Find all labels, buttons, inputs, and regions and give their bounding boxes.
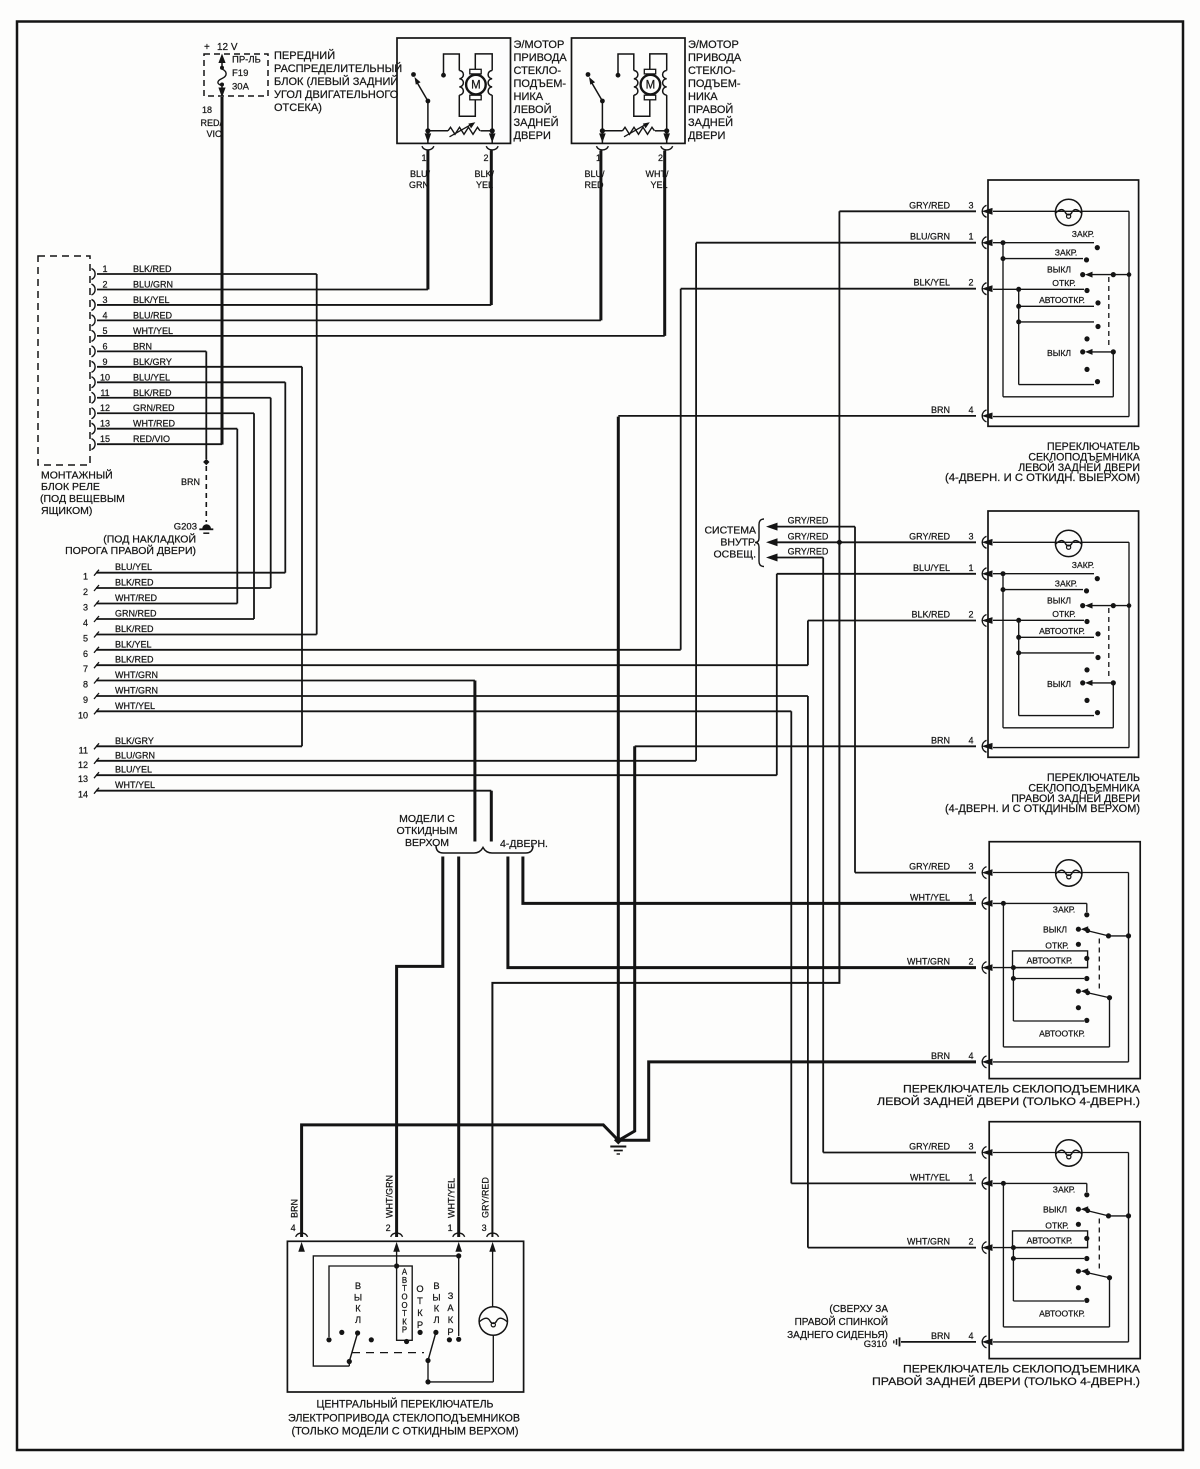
svg-text:ОТКР.: ОТКР. (1052, 609, 1075, 619)
connector pin 3 BLK/YEL (92, 299, 96, 310)
svg-text:МОНТАЖНЫЙ: МОНТАЖНЫЙ (41, 469, 113, 482)
svg-text:18: 18 (202, 105, 212, 115)
svg-text:Р: Р (447, 1327, 453, 1337)
svg-text:О: О (416, 1284, 423, 1294)
svg-text:WHT/RED: WHT/RED (133, 419, 175, 429)
wire switch1 pin1 BLU/GRN horizontal (696, 242, 976, 244)
central switch pin connectors (296, 1233, 308, 1237)
svg-text:ДВЕРИ: ДВЕРИ (688, 130, 725, 142)
svg-text:Л: Л (355, 1315, 361, 1325)
svg-text:WHT/GRN: WHT/GRN (907, 1237, 950, 1247)
svg-text:В: В (355, 1281, 361, 1291)
harness wire 2 BLK/RED (94, 585, 99, 591)
window motor right rear door (572, 38, 686, 143)
framed vertical АВТООТКР text (397, 1266, 413, 1340)
svg-text:4: 4 (968, 1051, 973, 1061)
window switch right rear door (4-door only) internals (993, 1152, 1129, 1154)
svg-text:ЦЕНТРАЛЬНЫЙ ПЕРЕКЛЮЧАТЕЛЬ: ЦЕНТРАЛЬНЫЙ ПЕРЕКЛЮЧАТЕЛЬ (317, 1398, 494, 1411)
svg-text:ПОДЪЕМ-: ПОДЪЕМ- (688, 78, 741, 90)
wire switch2 pin4 BRN horizontal (635, 745, 976, 747)
svg-text:ЗАКР.: ЗАКР. (1053, 1185, 1075, 1195)
connector pin 12 GRN/RED (92, 408, 96, 419)
svg-text:RED/: RED/ (200, 118, 222, 128)
wire from top connector pin 4 (97, 319, 601, 321)
svg-text:GRY/RED: GRY/RED (909, 1142, 950, 1152)
svg-text:4: 4 (83, 618, 88, 628)
window motor left rear door internal switch contact (411, 72, 416, 77)
wire switch3 pin3 GRY/RED horizontal (855, 872, 976, 874)
svg-text:GRN/RED: GRN/RED (133, 403, 175, 413)
central switch contacts left group (339, 1330, 344, 1335)
svg-text:Л: Л (433, 1315, 439, 1325)
svg-text:АВТООТКР.: АВТООТКР. (1039, 626, 1085, 636)
wire BLU/GRN row12 up to switch1 pin1 (695, 243, 697, 761)
svg-text:БЛОК (ЛЕВЫЙ ЗАДНИЙ: БЛОК (ЛЕВЫЙ ЗАДНИЙ (274, 75, 398, 88)
svg-text:СТЕКЛО-: СТЕКЛО- (688, 65, 736, 77)
svg-text:ЗАДНЕЙ: ЗАДНЕЙ (688, 116, 733, 129)
svg-text:ЛЕВОЙ: ЛЕВОЙ (514, 103, 552, 116)
svg-text:ОТКР.: ОТКР. (1045, 940, 1068, 950)
svg-text:3: 3 (83, 603, 88, 613)
window switch right rear door (4-door and convertible) (988, 511, 1139, 757)
connector pin 10 BLU/YEL (92, 377, 96, 388)
wire WHT/YEL 4-door branch to switch3 pin1 (523, 857, 976, 904)
svg-text:2: 2 (658, 153, 663, 163)
svg-text:ВЫКЛ: ВЫКЛ (1047, 679, 1071, 689)
svg-text:BLK/YEL: BLK/YEL (133, 295, 170, 305)
wire BLK/RED row7 up to switch2 pin2 (807, 621, 809, 666)
central window switch box (287, 1241, 523, 1392)
svg-text:АВТООТКР.: АВТООТКР. (1039, 1029, 1085, 1039)
svg-text:BLK/RED: BLK/RED (115, 655, 154, 665)
svg-text:12: 12 (100, 403, 110, 413)
wire motor2 pin1 BLU/RED down to node row4 (599, 151, 602, 321)
svg-text:WHT/YEL: WHT/YEL (447, 1178, 457, 1218)
svg-text:1: 1 (83, 572, 88, 582)
harness wire 14 WHT/YEL (94, 788, 99, 794)
framed АВТООТКР. in window switch right rear door (4-door only) (1013, 1231, 1088, 1248)
svg-text:BLU/YEL: BLU/YEL (913, 563, 950, 573)
svg-text:4: 4 (291, 1223, 296, 1233)
svg-text:2: 2 (386, 1223, 391, 1233)
svg-text:14: 14 (78, 790, 88, 800)
svg-text:ПЕРЕКЛЮЧАТЕЛЬ СЕКЛОПОДЪЕМНИКА: ПЕРЕКЛЮЧАТЕЛЬ СЕКЛОПОДЪЕМНИКА (903, 1364, 1141, 1376)
svg-text:Ы: Ы (354, 1292, 362, 1302)
svg-text:ВЫКЛ: ВЫКЛ (1043, 925, 1067, 935)
svg-text:ЗАКР.: ЗАКР. (1072, 229, 1094, 239)
svg-text:BRN: BRN (931, 735, 950, 745)
svg-text:BLK/RED: BLK/RED (115, 624, 154, 634)
connector pin 13 WHT/RED (92, 423, 96, 434)
window switch right rear door (4-door and convertible) internals (993, 541, 1129, 543)
svg-text:(ПОД ВЕЩЕВЫМ: (ПОД ВЕЩЕВЫМ (40, 493, 125, 505)
svg-text:ВЫКЛ: ВЫКЛ (1047, 264, 1071, 274)
wire BLU/YEL row13 up to switch2 pin1 (776, 574, 778, 775)
svg-text:GRY/RED: GRY/RED (909, 200, 950, 210)
svg-text:ВЫКЛ: ВЫКЛ (1043, 1205, 1067, 1215)
connector pin 5 WHT/YEL (92, 330, 96, 341)
svg-text:2: 2 (483, 153, 488, 163)
svg-text:АВТООТКР.: АВТООТКР. (1027, 1236, 1073, 1246)
svg-text:ВЫКЛ: ВЫКЛ (1047, 348, 1071, 358)
harness wire 8 WHT/GRN (94, 678, 99, 684)
svg-text:2: 2 (102, 279, 107, 289)
svg-text:13: 13 (100, 419, 110, 429)
harness wire 13 BLU/YEL (94, 772, 99, 778)
svg-text:BLU/YEL: BLU/YEL (133, 372, 170, 382)
svg-text:WHT/YEL: WHT/YEL (115, 701, 155, 711)
trunk wire WHT/YEL row14 down to model brace (490, 791, 493, 842)
svg-text:WHT/YEL: WHT/YEL (133, 326, 173, 336)
ground G310 symbol (899, 1337, 901, 1346)
svg-text:BLK/YEL: BLK/YEL (115, 639, 152, 649)
window switch right rear door (4-door only) (989, 1122, 1140, 1359)
switch arm left (349, 1333, 357, 1362)
svg-text:1: 1 (968, 892, 973, 902)
svg-text:GRY/RED: GRY/RED (909, 531, 950, 541)
svg-text:З: З (448, 1291, 454, 1301)
svg-text:GRY/RED: GRY/RED (788, 547, 829, 557)
wire GRY/RED to interior lighting 3 (766, 554, 778, 562)
svg-text:(ТОЛЬКО МОДЕЛИ С ОТКИДНЫМ ВЕРХ: (ТОЛЬКО МОДЕЛИ С ОТКИДНЫМ ВЕРХОМ) (292, 1426, 519, 1438)
svg-text:ЗАКР.: ЗАКР. (1055, 248, 1077, 258)
wire from top connector pin 11 (97, 397, 271, 399)
harness wire 11 BLK/GRY (94, 743, 99, 749)
svg-text:BLK/RED: BLK/RED (133, 388, 172, 398)
window switch left rear door (4-door and convertible) internals (993, 210, 1129, 212)
connector pin 2 BLU/GRN (92, 284, 96, 295)
svg-text:4: 4 (102, 310, 107, 320)
harness wire 5 BLK/RED (94, 632, 99, 638)
svg-text:А: А (447, 1303, 454, 1313)
svg-text:9: 9 (83, 695, 88, 705)
svg-text:4: 4 (968, 1331, 973, 1341)
svg-text:ОСВЕЩ.: ОСВЕЩ. (713, 549, 756, 561)
wire switch4 pin1 WHT/YEL horizontal (791, 1182, 976, 1184)
svg-text:ОТКИДНЫМ: ОТКИДНЫМ (397, 825, 458, 837)
svg-text:ЗАКР.: ЗАКР. (1072, 560, 1094, 570)
svg-text:ПЕРЕДНИЙ: ПЕРЕДНИЙ (274, 49, 335, 62)
wire from top connector pin 9 (97, 366, 302, 368)
svg-text:2: 2 (968, 1237, 973, 1247)
svg-text:УГОЛ ДВИГАТЕЛЬНОГО: УГОЛ ДВИГАТЕЛЬНОГО (274, 89, 399, 101)
svg-text:GRY/RED: GRY/RED (788, 516, 829, 526)
svg-text:ЗАДНЕГО СИДЕНЬЯ): ЗАДНЕГО СИДЕНЬЯ) (787, 1330, 888, 1341)
svg-text:ПОРОГА ПРАВОЙ ДВЕРИ): ПОРОГА ПРАВОЙ ДВЕРИ) (65, 544, 196, 557)
wire switch4 pin3 GRY/RED horizontal (823, 1152, 976, 1154)
svg-text:ПРИВОДА: ПРИВОДА (514, 52, 568, 64)
svg-text:WHT/YEL: WHT/YEL (910, 892, 950, 902)
svg-text:13: 13 (78, 774, 88, 784)
node: pin13 WHT/RED drops to lower row 3 (236, 429, 238, 604)
svg-text:2: 2 (968, 610, 973, 620)
svg-text:BRN: BRN (931, 1331, 950, 1341)
wire WHT/YEL convertible branch to central switch pin1 (457, 857, 460, 1238)
svg-text:МОДЕЛИ С: МОДЕЛИ С (399, 813, 455, 825)
wire motor2 pin2 WHT/YEL down to node row5 (663, 151, 666, 336)
node: pin10 BLU/YEL drops to lower row 1 (284, 382, 286, 572)
wire WHT/GRN row9 down to switch4 pin2 (807, 696, 809, 1248)
wire from top connector pin 10 (97, 381, 285, 383)
wire GRY/RED up branch to switch3 pin3 (854, 527, 856, 873)
wire from top connector pin 15 (97, 443, 222, 445)
svg-text:4-ДВЕРН.: 4-ДВЕРН. (500, 838, 548, 850)
svg-text:G203: G203 (174, 522, 197, 533)
svg-text:1: 1 (968, 232, 973, 242)
wire from top connector pin 2 (97, 288, 428, 290)
svg-text:WHT/GRN: WHT/GRN (907, 957, 950, 967)
harness wire 9 WHT/GRN (94, 693, 99, 699)
svg-text:9: 9 (102, 357, 107, 367)
svg-text:BLU/GRN: BLU/GRN (910, 232, 950, 242)
svg-text:12 V: 12 V (217, 42, 238, 53)
svg-text:НИКА: НИКА (688, 91, 718, 103)
window motor right rear door output pins 1,2 (601, 130, 603, 133)
node: pin1 BLK/RED drops to lower row 5 (316, 274, 318, 635)
svg-text:BLK/RED: BLK/RED (911, 610, 950, 620)
svg-text:WHT/YEL: WHT/YEL (115, 780, 155, 790)
chassis ground symbol (610, 1146, 626, 1148)
connector pin 6 BRN (92, 346, 96, 357)
wire GRY/RED to interior lighting 1 (766, 523, 778, 531)
svg-text:НИКА: НИКА (514, 91, 544, 103)
lamp in central switch (492, 1245, 494, 1307)
svg-text:РАСПРЕДЕЛИТЕЛЬНЫЙ: РАСПРЕДЕЛИТЕЛЬНЫЙ (274, 62, 402, 75)
svg-text:ЛЕВОЙ ЗАДНЕЙ ДВЕРИ (ТОЛЬКО 4-Д: ЛЕВОЙ ЗАДНЕЙ ДВЕРИ (ТОЛЬКО 4-ДВЕРН.) (877, 1095, 1140, 1108)
svg-text:3: 3 (482, 1223, 487, 1233)
connector pin 11 BLK/RED (92, 392, 96, 403)
wire switch1 pin2 BLK/YEL horizontal (681, 288, 976, 290)
wire switch4 pin4 BRN to ground G310 (901, 1341, 976, 1343)
svg-text:(4-ДВЕРН. И С ОТКИДН. ВЫЕРХОМ): (4-ДВЕРН. И С ОТКИДН. ВЫЕРХОМ) (945, 472, 1140, 484)
svg-text:ОТКР.: ОТКР. (1045, 1220, 1068, 1230)
harness wire 6 BLK/YEL (94, 647, 99, 653)
svg-text:7: 7 (83, 664, 88, 674)
wire from top connector pin 3 (97, 304, 491, 306)
connector pin 15 RED/VIO (92, 439, 96, 450)
junction BRN (203, 459, 209, 465)
harness wire 10 WHT/YEL (94, 708, 99, 714)
svg-text:5: 5 (102, 326, 107, 336)
svg-text:Т: Т (417, 1296, 423, 1306)
svg-text:BLK/YEL: BLK/YEL (913, 278, 950, 288)
harness wire 7 BLK/RED (94, 662, 99, 668)
svg-text:BRN: BRN (290, 1199, 300, 1218)
svg-text:2: 2 (83, 587, 88, 597)
svg-text:1: 1 (968, 1172, 973, 1182)
wire switch4 pin2 WHT/GRN horizontal (808, 1247, 976, 1249)
wire RED/VIO from fuse down to connector pin 15 (221, 97, 224, 445)
brace interior lighting (755, 519, 764, 567)
ground junction (614, 1136, 623, 1145)
svg-text:BRN: BRN (931, 1051, 950, 1061)
svg-text:ОТСЕКА): ОТСЕКА) (274, 102, 322, 114)
svg-text:В: В (433, 1281, 439, 1291)
lamp in window switch right rear door (4-door only) (1056, 1140, 1082, 1166)
svg-text:BLU/RED: BLU/RED (133, 310, 173, 320)
svg-text:3: 3 (968, 200, 973, 210)
wire from top connector pin 6 (97, 350, 206, 352)
svg-text:BLK/RED: BLK/RED (133, 264, 172, 274)
harness wire 1 BLU/YEL (94, 570, 99, 576)
svg-text:3: 3 (968, 1142, 973, 1152)
svg-text:3: 3 (102, 295, 107, 305)
svg-text:Р: Р (402, 1326, 407, 1335)
wire from top connector pin 13 (97, 428, 237, 430)
svg-text:11: 11 (79, 745, 88, 755)
wire motor1 pin2 BLK/YEL down to node row3 (490, 151, 493, 306)
svg-text:ОТКР.: ОТКР. (1052, 278, 1075, 288)
svg-text:WHT/GRN: WHT/GRN (115, 670, 158, 680)
svg-text:BLU/YEL: BLU/YEL (115, 765, 152, 775)
svg-text:ВЕРХОМ: ВЕРХОМ (405, 837, 449, 849)
window switch left rear door (4-door and convertible) (988, 180, 1139, 426)
svg-text:ЯЩИКОМ): ЯЩИКОМ) (41, 505, 92, 517)
lamp in window switch right rear door (4-door and convertible) (1055, 530, 1081, 556)
svg-text:BLU/GRN: BLU/GRN (115, 750, 155, 760)
central switch inner frame (pin1 net) (313, 1256, 458, 1366)
svg-text:3: 3 (968, 862, 973, 872)
wire switch2 pin1 BLU/YEL horizontal (777, 573, 976, 575)
svg-text:ЭЛЕКТРОПРИВОДА СТЕКЛОПОДЪЕМНИК: ЭЛЕКТРОПРИВОДА СТЕКЛОПОДЪЕМНИКОВ (288, 1413, 520, 1425)
framed АВТООТКР. in window switch left rear door (4-door only) (1013, 951, 1088, 968)
svg-text:2: 2 (968, 278, 973, 288)
svg-text:К: К (417, 1308, 423, 1318)
central switch AUTO-OPEN branch (396, 1245, 398, 1266)
svg-text:СИСТЕМА: СИСТЕМА (704, 525, 756, 537)
svg-text:3: 3 (968, 531, 973, 541)
wire switch2 pin2 BLK/RED horizontal (808, 620, 976, 622)
window switch left rear door (4-door only) internals (993, 872, 1129, 874)
wire BLK/YEL row6 up to switch1 pin2 (680, 289, 682, 650)
wire switch1 pin4 BRN horizontal (618, 415, 976, 417)
fuse F19 30A symbol (218, 54, 225, 64)
svg-text:BRN: BRN (931, 405, 950, 415)
svg-text:WHT/YEL: WHT/YEL (910, 1172, 950, 1182)
svg-text:ПР-ЛЬ: ПР-ЛЬ (232, 55, 261, 66)
svg-text:10: 10 (78, 710, 88, 720)
wire GRY/RED junction to switch2 pin3 (839, 541, 976, 543)
svg-text:BRN: BRN (133, 341, 152, 351)
trunk wire WHT/GRN row8 down to model brace (473, 681, 476, 842)
svg-text:ВНУТР.: ВНУТР. (720, 537, 756, 549)
central switch contacts right group (418, 1330, 423, 1335)
svg-text:АВТООТКР.: АВТООТКР. (1027, 956, 1073, 966)
wire BRN switch3 pin4 to ground (621, 1062, 976, 1140)
harness wire 3 WHT/RED (94, 601, 99, 607)
svg-text:+: + (204, 42, 210, 53)
svg-text:WHT/GRN: WHT/GRN (115, 686, 158, 696)
svg-text:К: К (448, 1315, 454, 1325)
svg-text:6: 6 (102, 341, 107, 351)
wire from top connector pin 12 (97, 412, 254, 414)
svg-text:1: 1 (421, 153, 426, 163)
thermal limiter resistor (window motor left rear door) (425, 128, 430, 133)
svg-text:11: 11 (100, 388, 109, 398)
svg-text:15: 15 (100, 434, 110, 444)
svg-text:BLK/GRY: BLK/GRY (133, 357, 172, 367)
svg-text:К: К (434, 1304, 440, 1314)
wire GRY/RED down branch to switch4 pin3 (822, 558, 824, 1153)
wire BRN from pin 6 to ground G203 (205, 351, 207, 459)
wire WHT/GRN convertible branch (397, 857, 443, 1238)
wire BRN central switch pin4 (302, 1125, 617, 1237)
svg-text:(ПОД НАКЛАДКОЙ: (ПОД НАКЛАДКОЙ (103, 533, 196, 546)
svg-text:ПРИВОДА: ПРИВОДА (688, 52, 742, 64)
motor M symbol (window motor right rear door) (644, 69, 655, 74)
svg-text:GRN/RED: GRN/RED (115, 609, 157, 619)
svg-text:4: 4 (968, 405, 973, 415)
svg-text:BLU/YEL: BLU/YEL (115, 562, 152, 572)
svg-text:БЛОК РЕЛЕ: БЛОК РЕЛЕ (41, 481, 100, 493)
svg-text:WHT/RED: WHT/RED (115, 593, 157, 603)
svg-text:Р: Р (417, 1320, 423, 1330)
window switch left rear door (4-door only) (989, 842, 1140, 1079)
wire switch1 pin3 GRY/RED horizontal (839, 210, 976, 212)
svg-text:M: M (471, 80, 481, 92)
window motor left rear door output pins 1,2 (427, 130, 429, 133)
svg-text:GRY/RED: GRY/RED (909, 862, 950, 872)
svg-text:2: 2 (968, 957, 973, 967)
connector pin 9 BLK/GRY (92, 361, 96, 372)
svg-text:ЗАКР.: ЗАКР. (1053, 905, 1075, 915)
window motor left rear door (397, 38, 511, 143)
fuse block dashed box (204, 54, 268, 96)
svg-text:8: 8 (83, 680, 88, 690)
wire BRN switch2 pin4 down to ground (621, 746, 635, 1139)
wire GRY/RED to interior lighting 2 (766, 538, 778, 546)
svg-text:1: 1 (968, 563, 973, 573)
wire WHT/GRN 4-door branch to switch3 pin2 (508, 857, 976, 968)
wire from top connector pin 1 (97, 273, 317, 275)
wire WHT/YEL row10 down to switch4 pin1 (790, 711, 792, 1183)
svg-text:(4-ДВЕРН. И С ОТКДИНЫМ ВЕРХОМ): (4-ДВЕРН. И С ОТКДИНЫМ ВЕРХОМ) (945, 803, 1140, 815)
connector pin 1 BLK/RED (92, 269, 96, 280)
svg-text:СТЕКЛО-: СТЕКЛО- (514, 65, 562, 77)
svg-text:VIO: VIO (206, 129, 222, 139)
svg-text:BLK/RED: BLK/RED (115, 578, 154, 588)
motor M symbol (window motor left rear door) (470, 69, 481, 74)
svg-text:ПРАВОЙ СПИНКОЙ: ПРАВОЙ СПИНКОЙ (795, 1315, 888, 1328)
connector pin 4 BLU/RED (92, 315, 96, 326)
node: pin11 BLK/RED drops to lower row 2 (270, 398, 272, 588)
svg-text:GRN: GRN (409, 180, 429, 190)
svg-text:WHT/GRN: WHT/GRN (385, 1175, 395, 1218)
relay block connector dashed box (38, 256, 90, 465)
svg-text:1: 1 (102, 264, 107, 274)
svg-text:BLU/GRN: BLU/GRN (133, 279, 173, 289)
svg-text:ПРАВОЙ ЗАДНЕЙ ДВЕРИ (ТОЛЬКО 4-: ПРАВОЙ ЗАДНЕЙ ДВЕРИ (ТОЛЬКО 4-ДВЕРН.) (872, 1375, 1140, 1388)
svg-text:RED/VIO: RED/VIO (133, 434, 170, 444)
node: pin9 BLK/GRY drops to lower row 11 (301, 367, 303, 747)
svg-text:BRN: BRN (181, 477, 200, 487)
svg-text:Э/МОТОР: Э/МОТОР (688, 39, 739, 51)
lamp in window switch left rear door (4-door only) (1056, 860, 1082, 886)
svg-text:Ы: Ы (432, 1292, 440, 1302)
node: pin12 GRN/RED drops to lower row 4 (253, 413, 255, 619)
mechanical link dashed (352, 1352, 424, 1354)
thermal limiter resistor (window motor right rear door) (600, 128, 605, 133)
wire GRY/RED trunk down to central switch pin3 (492, 542, 839, 1237)
svg-text:4: 4 (968, 735, 973, 745)
svg-text:6: 6 (83, 649, 88, 659)
svg-text:ПОДЪЕМ-: ПОДЪЕМ- (514, 78, 567, 90)
svg-text:АВТООТКР.: АВТООТКР. (1039, 295, 1085, 305)
window motor right rear door internal switch contact (586, 72, 591, 77)
junction GRY/RED (836, 539, 843, 546)
wire motor1 pin1 BLU/GRN down to node row2 (426, 151, 429, 290)
svg-text:GRY/RED: GRY/RED (788, 531, 829, 541)
